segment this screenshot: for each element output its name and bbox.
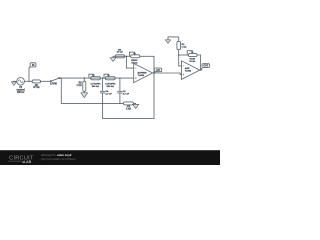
svg-text:LPF: LPF [156, 70, 161, 72]
svg-text:V4: V4 [19, 86, 23, 89]
svg-text:1 kΩ: 1 kΩ [126, 109, 131, 111]
svg-text:http://circuitlab.com/c6kkdv: http://circuitlab.com/c6kkdv [41, 157, 76, 161]
svg-text:500 kΩ: 500 kΩ [92, 86, 99, 88]
svg-text:TL082: TL082 [185, 70, 192, 72]
svg-text:47 kΩ: 47 kΩ [33, 86, 39, 89]
svg-text:LPSW: LPSW [50, 83, 57, 85]
svg-text:1 kΩ: 1 kΩ [77, 85, 82, 87]
svg-text:10 kΩ: 10 kΩ [117, 52, 123, 54]
svg-text:OUT: OUT [203, 66, 208, 68]
svg-text:100 Hz: 100 Hz [17, 92, 25, 94]
svg-text:10 kΩ: 10 kΩ [189, 61, 195, 63]
svg-text:IN: IN [32, 65, 35, 67]
svg-text:4.7 nF: 4.7 nF [123, 92, 130, 95]
svg-text:◂LAB: ◂LAB [21, 160, 32, 164]
svg-text:1 kΩ: 1 kΩ [182, 47, 187, 49]
svg-text:500 kΩ: 500 kΩ [107, 86, 114, 88]
svg-text:4.7 nF: 4.7 nF [105, 92, 112, 95]
svg-text:TL082: TL082 [138, 75, 145, 77]
svg-text:10 kΩ: 10 kΩ [131, 63, 137, 65]
